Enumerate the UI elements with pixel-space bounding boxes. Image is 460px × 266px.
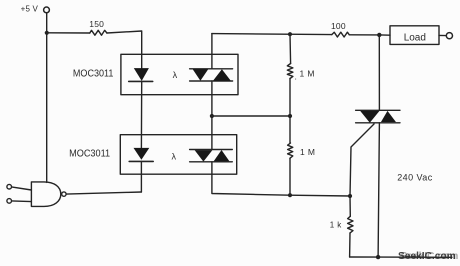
svg-text:150: 150 bbox=[89, 19, 104, 29]
resistor R4 1M bbox=[288, 143, 293, 158]
wire: +5V terminal down to junction and on down to NAND gate top bbox=[46, 13, 48, 183]
wire: junction E down to resistor 1M #1 bbox=[289, 34, 292, 63]
node C: junction dot on 1M divider line bbox=[288, 114, 292, 118]
svg-text:+5 V: +5 V bbox=[21, 4, 39, 13]
input terminal 2 bbox=[7, 199, 12, 204]
LED D1 inside U1 bbox=[134, 68, 149, 81]
svg-text:λ: λ bbox=[173, 70, 178, 80]
LED D2 inside U2 bbox=[134, 148, 150, 160]
svg-text:240 Vac: 240 Vac bbox=[397, 173, 433, 183]
Load box bbox=[390, 26, 439, 45]
node A: +5V junction dot bbox=[45, 31, 49, 35]
input terminal 1 bbox=[7, 184, 12, 189]
wire: resistor 150 to box1 LED anode (corner at x=141.5) bbox=[107, 31, 142, 68]
NAND gate U3 bbox=[31, 182, 60, 207]
wire: U1 triac top up to AC top wire bbox=[211, 34, 213, 69]
node D: load node junction dot bbox=[377, 33, 381, 37]
wire: junction to resistor 150 bbox=[47, 32, 90, 34]
wire: U1 triac bottom down to junction bbox=[211, 81, 213, 116]
wire: LED1 cathode down through box1 bottom into box2 to LED2 bbox=[140, 81, 142, 147]
svg-text:1 k: 1 k bbox=[330, 220, 342, 229]
wire: triac main line from load node down to triac Q1 bbox=[378, 35, 380, 110]
wire: U2 triac top from junction B down into box2 bbox=[211, 116, 213, 149]
svg-text:1 M: 1 M bbox=[300, 68, 315, 78]
node H: bottom wire junction dot bbox=[376, 255, 380, 259]
wire: 1M #1 to junction C bbox=[289, 79, 291, 117]
wire: NAND inputs bbox=[12, 187, 32, 202]
node B: junction dot U1/U2 bbox=[210, 114, 214, 118]
node G: gate-net junction dot at 1k bbox=[348, 194, 352, 198]
resistor R1 150 bbox=[90, 30, 107, 35]
wire: junction G down to resistor 1k bbox=[349, 196, 351, 216]
wire: AC bottom wire bbox=[350, 256, 452, 258]
wire: triac Q1 bottom to AC bottom wire bbox=[378, 123, 379, 257]
wire: resistor 100 to load node bbox=[349, 34, 379, 36]
wire: junction C down to resistor 1M #2 bbox=[289, 116, 291, 143]
wire: Load box to AC terminal bbox=[439, 34, 446, 36]
resistor R5 1k bbox=[348, 216, 353, 233]
svg-text:MOC3011: MOC3011 bbox=[73, 68, 114, 79]
svg-text:Load: Load bbox=[404, 33, 426, 44]
wire: LED2 cathode down to NAND output net bbox=[140, 161, 142, 192]
wire: load node to Load box bbox=[379, 34, 390, 36]
wire: 1k to AC bottom wire corner bbox=[349, 233, 351, 257]
wire: top AC wire from U1 to resistor 100 bbox=[212, 34, 332, 35]
resistor R3 1M bbox=[287, 64, 293, 79]
triac Q1 bbox=[356, 110, 400, 123]
node F: gate-net junction dot at 1M #2 bbox=[288, 193, 292, 197]
optocoupler U2 box MOC3011 bbox=[120, 135, 236, 175]
svg-text:SeekIC.com: SeekIC.com bbox=[401, 251, 459, 262]
node E: top wire junction with 1M #1 bbox=[288, 32, 292, 36]
svg-text:100: 100 bbox=[331, 21, 346, 31]
optocoupler U1 box MOC3011 bbox=[121, 54, 238, 94]
phototriac of U2 bbox=[190, 150, 233, 162]
svg-text:1 M: 1 M bbox=[300, 147, 315, 157]
AC line terminal bbox=[446, 33, 452, 39]
wire: 1M #2 down to gate net junction bbox=[289, 158, 291, 195]
wire: junction B to junction C bbox=[212, 115, 290, 117]
wire: U2 triac bottom down and right to gate net bbox=[212, 162, 350, 196]
wire: NAND output to LED cathode net bbox=[66, 192, 141, 194]
svg-text:.: . bbox=[295, 72, 297, 82]
svg-text:λ: λ bbox=[172, 151, 177, 161]
phototriac of U1 bbox=[190, 69, 233, 81]
NAND output bubble bbox=[62, 192, 66, 196]
svg-text:MOC3011: MOC3011 bbox=[69, 148, 110, 159]
resistor R2 100 bbox=[332, 32, 350, 37]
+5 V supply terminal bbox=[44, 7, 50, 13]
wire: triac Q1 gate lead to gate net bbox=[350, 124, 374, 196]
